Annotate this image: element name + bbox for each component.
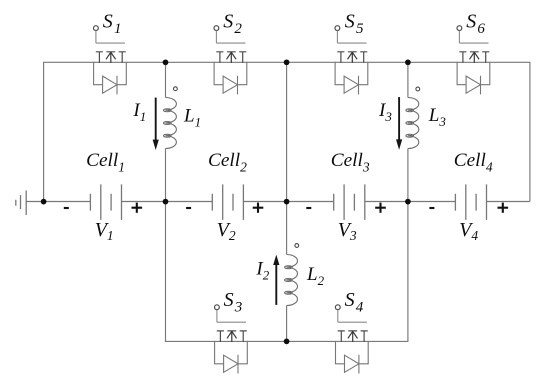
- svg-text:S3: S3: [224, 289, 243, 316]
- svg-text:S2: S2: [223, 11, 242, 37]
- svg-text:Cell1: Cell1: [86, 150, 125, 175]
- svg-text:I1: I1: [132, 100, 146, 124]
- svg-text:L2: L2: [306, 264, 325, 288]
- svg-text:S4: S4: [345, 289, 364, 316]
- svg-text:S6: S6: [466, 11, 485, 37]
- svg-text:V2: V2: [217, 219, 236, 243]
- svg-text:V4: V4: [459, 219, 478, 243]
- svg-text:S1: S1: [103, 11, 122, 37]
- svg-text:Cell4: Cell4: [454, 150, 493, 175]
- svg-text:I2: I2: [255, 258, 269, 282]
- svg-text:S5: S5: [345, 11, 364, 37]
- svg-text:V3: V3: [338, 219, 357, 243]
- svg-text:L1: L1: [183, 106, 201, 130]
- svg-text:I3: I3: [378, 100, 392, 124]
- svg-text:Cell2: Cell2: [208, 150, 247, 175]
- svg-text:L3: L3: [428, 105, 447, 129]
- svg-text:Cell3: Cell3: [331, 150, 370, 175]
- svg-text:V1: V1: [95, 219, 114, 243]
